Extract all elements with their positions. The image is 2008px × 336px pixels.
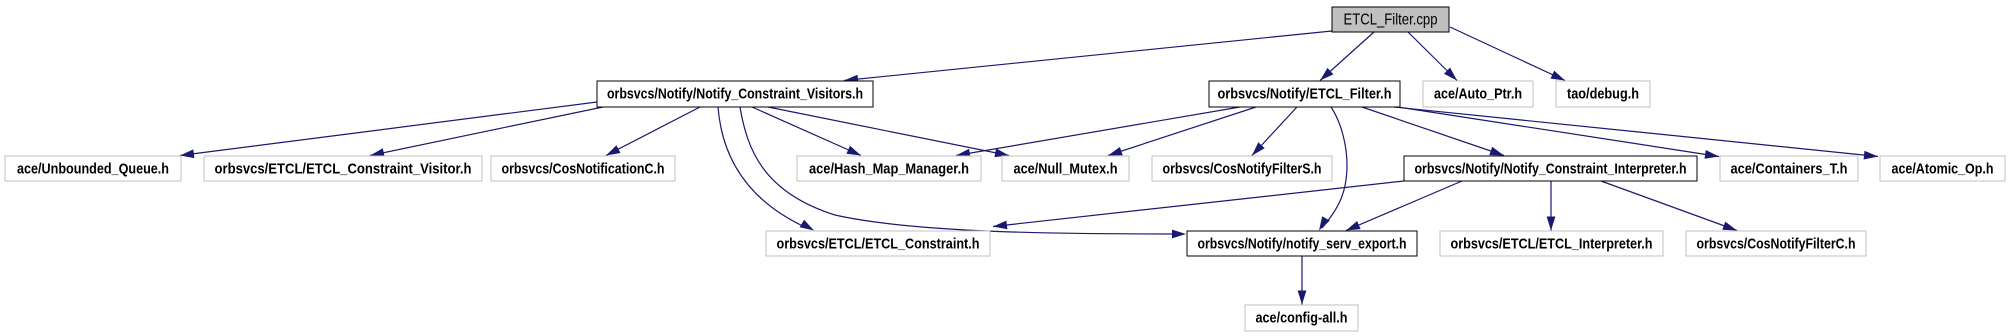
node orbsvcs/ETCL/ETCL_Constraint_Visitor.h — [204, 156, 482, 181]
edge Notify_Constraint_Visitors.h -> ETCL_Constraint_Visitor.h — [370, 107, 603, 157]
edge ETCL_Filter.h -> notify_serv_export.h — [1319, 107, 1347, 231]
edge Notify_Constraint_Visitors.h -> CosNotificationC.h — [606, 107, 700, 156]
node ace/Hash_Map_Manager.h — [797, 156, 981, 181]
node orbsvcs/Notify/ETCL_Filter.h — [1209, 81, 1400, 107]
node orbsvcs/CosNotifyFilterC.h — [1686, 231, 1866, 256]
svg-text:ace/Hash_Map_Manager.h: ace/Hash_Map_Manager.h — [809, 160, 969, 177]
edge Notify_Constraint_Interpreter.h -> notify_serv_export.h — [1346, 181, 1462, 231]
edge Notify_Constraint_Interpreter.h -> CosNotifyFilterC.h — [1601, 181, 1737, 231]
edge ETCL_Filter.h -> Atomic_Op.h — [1394, 107, 1878, 160]
node orbsvcs/CosNotificationC.h — [491, 156, 675, 181]
svg-text:ace/Auto_Ptr.h: ace/Auto_Ptr.h — [1434, 85, 1522, 102]
edge ETCL_Filter.h -> Null_Mutex.h — [1108, 107, 1256, 156]
edge ETCL_Filter.h -> Containers_T.h — [1398, 107, 1719, 159]
edge ETCL_Filter.cpp -> Auto_Ptr.h — [1408, 32, 1457, 81]
svg-text:orbsvcs/Notify/Notify_Constrai: orbsvcs/Notify/Notify_Constraint_Visitor… — [607, 85, 863, 102]
svg-text:orbsvcs/ETCL/ETCL_Interpreter.: orbsvcs/ETCL/ETCL_Interpreter.h — [1451, 235, 1653, 252]
edge Notify_Constraint_Visitors.h -> Hash_Map_Manager.h — [752, 107, 861, 156]
node orbsvcs/CosNotifyFilterS.h — [1152, 156, 1332, 181]
edge ETCL_Filter.h -> Notify_Constraint_Interpreter.h — [1362, 107, 1504, 156]
edge Notify_Constraint_Interpreter.h -> ETCL_Constraint.h — [993, 181, 1404, 229]
svg-text:orbsvcs/ETCL/ETCL_Constraint_V: orbsvcs/ETCL/ETCL_Constraint_Visitor.h — [215, 160, 472, 177]
svg-text:tao/debug.h: tao/debug.h — [1567, 85, 1639, 102]
svg-text:orbsvcs/Notify/Notify_Constrai: orbsvcs/Notify/Notify_Constraint_Interpr… — [1415, 160, 1687, 177]
node ace/Auto_Ptr.h — [1423, 81, 1533, 107]
node orbsvcs/Notify/Notify_Constraint_Visitors.h — [597, 81, 873, 107]
edge ETCL_Filter.h -> Hash_Map_Manager.h — [956, 107, 1240, 158]
edge Notify_Constraint_Visitors.h -> Unbounded_Queue.h — [180, 102, 597, 158]
svg-text:ace/Unbounded_Queue.h: ace/Unbounded_Queue.h — [17, 160, 169, 177]
svg-text:ace/Containers_T.h: ace/Containers_T.h — [1731, 160, 1848, 177]
node tao/debug.h — [1556, 81, 1650, 107]
svg-text:orbsvcs/Notify/notify_serv_exp: orbsvcs/Notify/notify_serv_export.h — [1198, 235, 1407, 252]
svg-text:ace/Atomic_Op.h: ace/Atomic_Op.h — [1892, 160, 1994, 177]
svg-text:orbsvcs/ETCL/ETCL_Constraint.h: orbsvcs/ETCL/ETCL_Constraint.h — [777, 235, 980, 252]
node orbsvcs/Notify/notify_serv_export.h — [1187, 231, 1417, 256]
node ace/config-all.h — [1245, 305, 1358, 331]
svg-text:orbsvcs/CosNotifyFilterS.h: orbsvcs/CosNotifyFilterS.h — [1163, 160, 1322, 177]
edge ETCL_Filter.cpp -> ETCL_Filter.h — [1320, 32, 1374, 81]
node orbsvcs/ETCL/ETCL_Constraint.h — [766, 231, 990, 256]
edge Notify_Constraint_Interpreter.h -> ETCL_Interpreter.h — [1547, 181, 1556, 231]
edge ETCL_Filter.cpp -> tao/debug.h — [1450, 27, 1565, 81]
node orbsvcs/Notify/Notify_Constraint_Interpreter.h — [1404, 156, 1697, 181]
svg-text:ace/config-all.h: ace/config-all.h — [1256, 309, 1348, 326]
svg-text:orbsvcs/Notify/ETCL_Filter.h: orbsvcs/Notify/ETCL_Filter.h — [1218, 85, 1392, 102]
node ace/Containers_T.h — [1720, 156, 1858, 181]
edge Notify_Constraint_Visitors.h -> notify_serv_export.h — [740, 107, 1186, 238]
node ace/Null_Mutex.h — [1002, 156, 1129, 181]
node ace/Unbounded_Queue.h — [5, 156, 181, 181]
node orbsvcs/ETCL/ETCL_Interpreter.h — [1440, 231, 1663, 256]
edge ETCL_Filter.h -> CosNotifyFilterS.h — [1252, 107, 1297, 156]
svg-text:ace/Null_Mutex.h: ace/Null_Mutex.h — [1014, 160, 1118, 177]
svg-text:orbsvcs/CosNotificationC.h: orbsvcs/CosNotificationC.h — [502, 160, 665, 177]
edge Notify_Constraint_Visitors.h -> ETCL_Constraint.h — [718, 107, 814, 231]
node ETCL_Filter.cpp — [1332, 7, 1449, 32]
svg-text:orbsvcs/CosNotifyFilterC.h: orbsvcs/CosNotifyFilterC.h — [1697, 235, 1856, 252]
edge ETCL_Filter.cpp -> Notify_Constraint_Visitors.h — [844, 31, 1332, 84]
edge notify_serv_export.h -> config-all.h — [1298, 256, 1307, 305]
edge Notify_Constraint_Visitors.h -> Null_Mutex.h — [768, 107, 1009, 157]
svg-text:ETCL_Filter.cpp: ETCL_Filter.cpp — [1344, 12, 1438, 29]
node ace/Atomic_Op.h — [1880, 156, 2005, 181]
